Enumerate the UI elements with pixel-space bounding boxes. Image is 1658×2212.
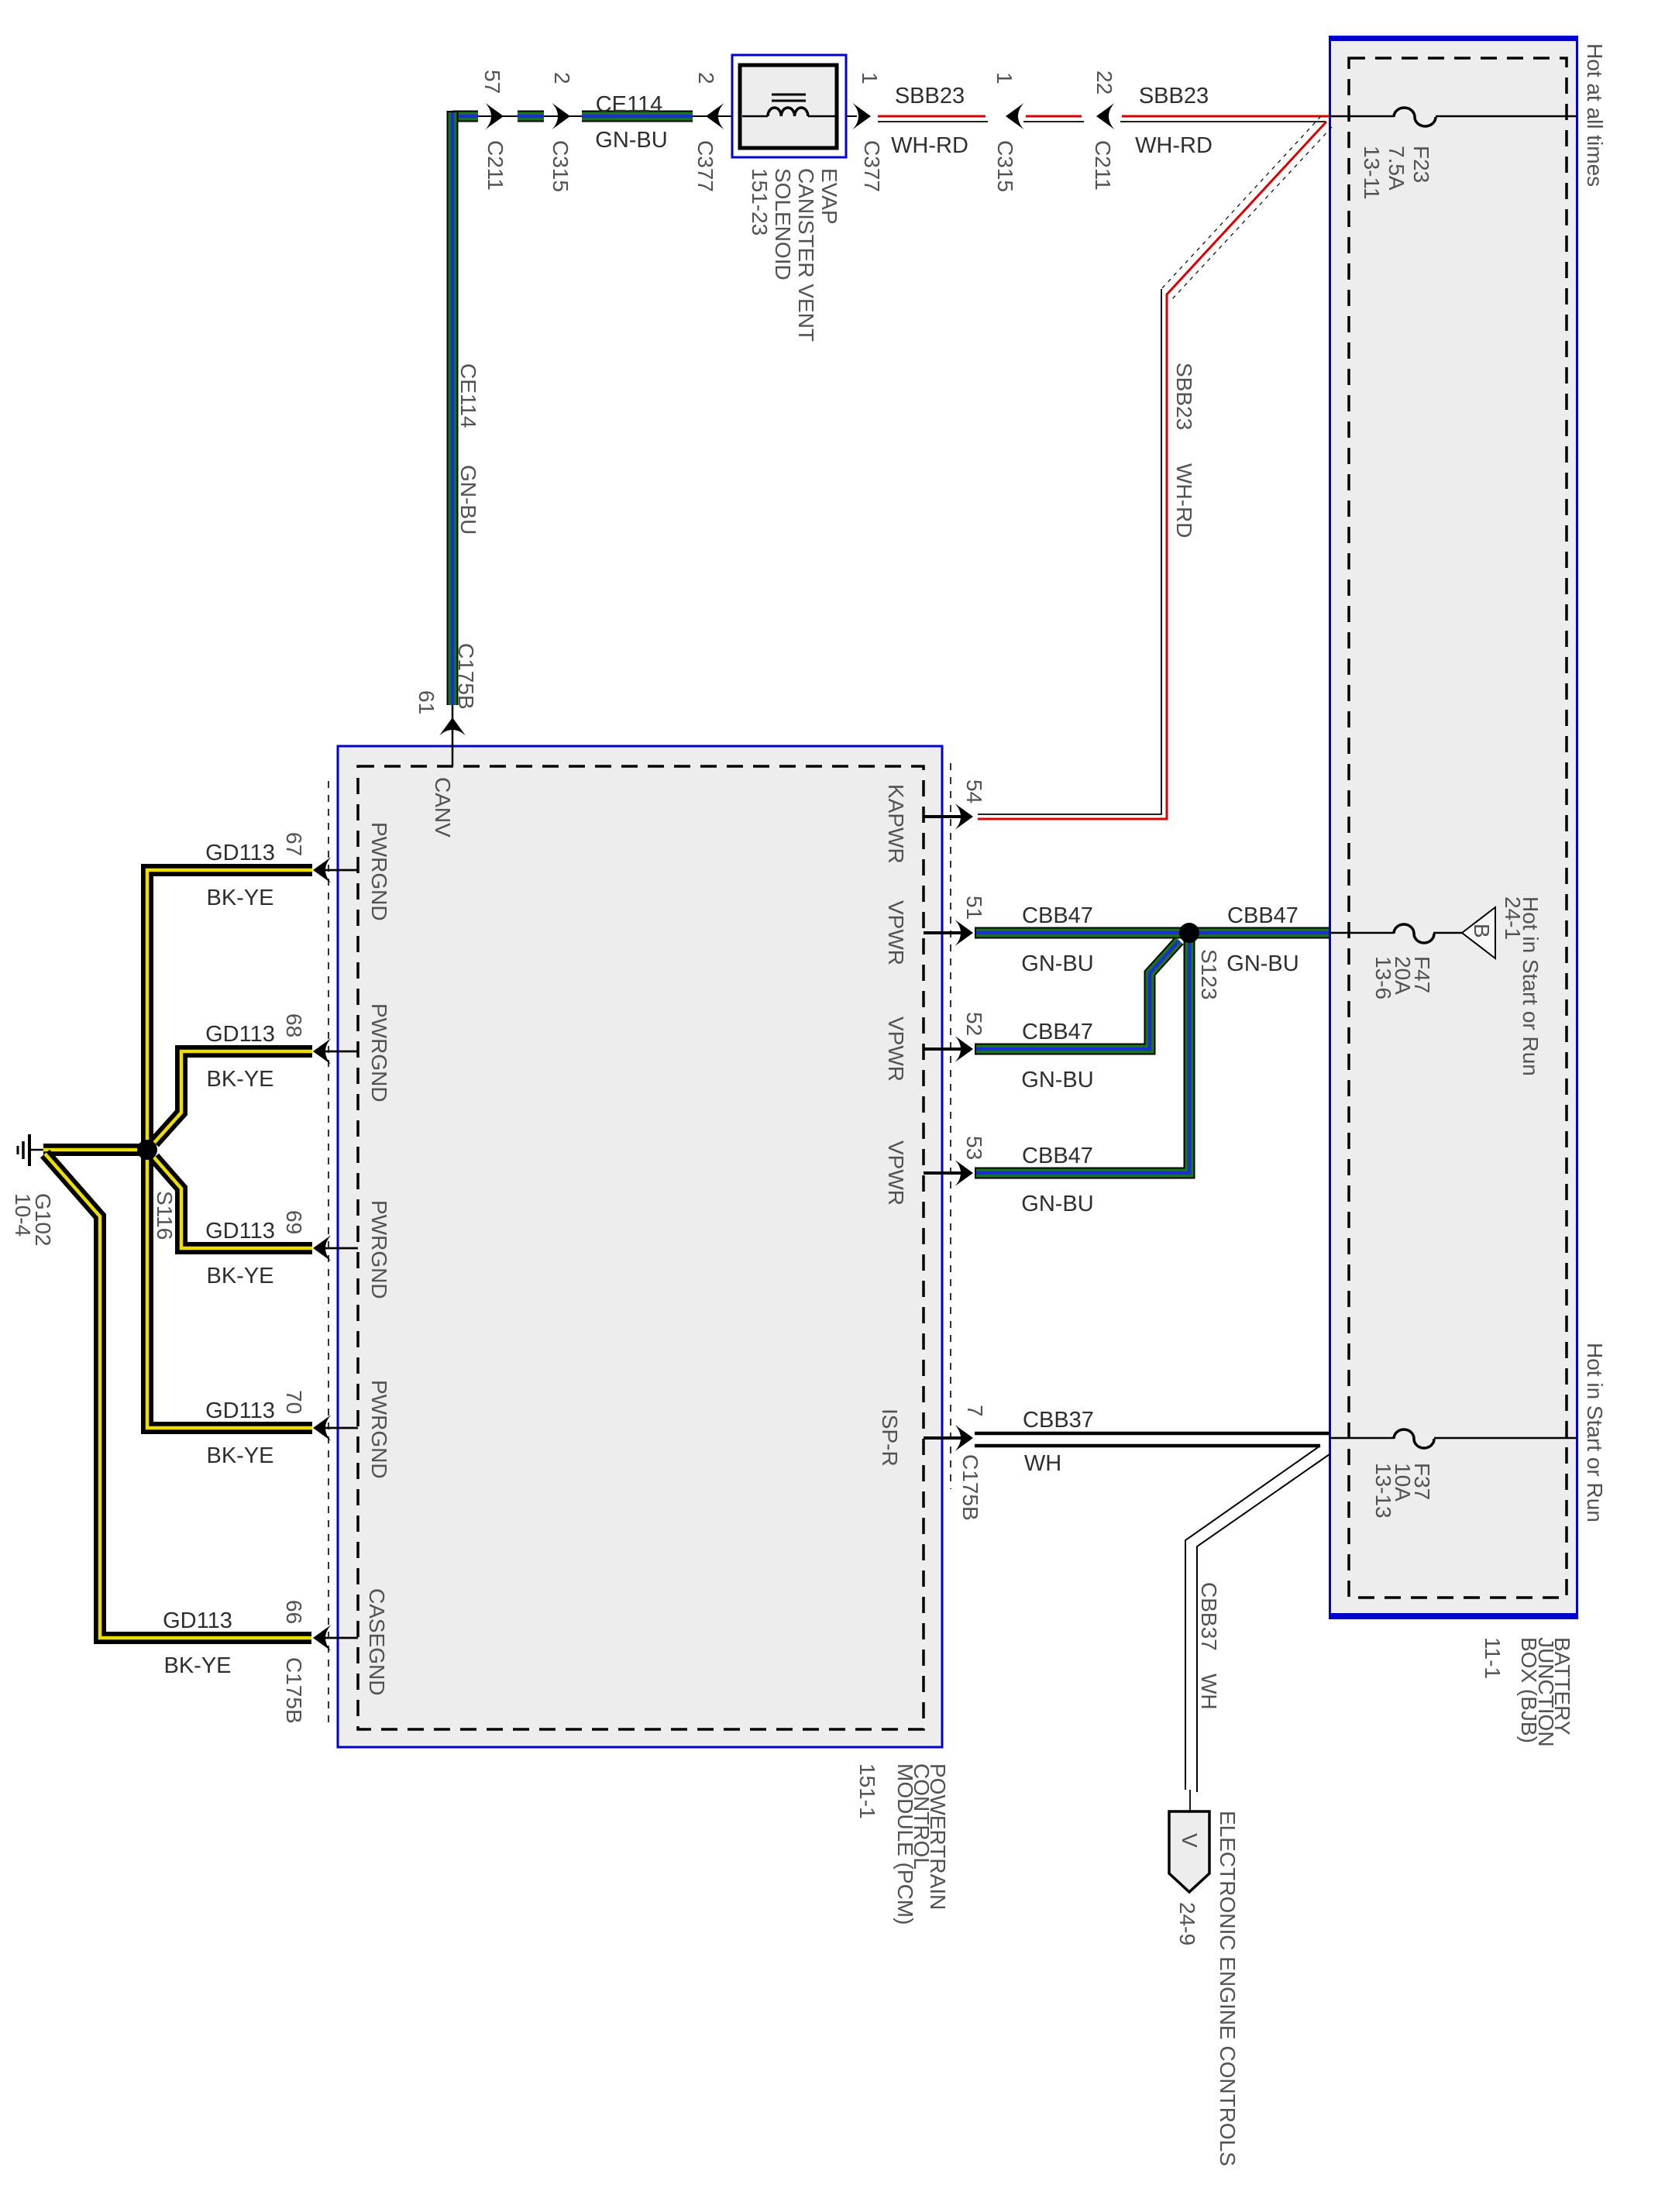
wire CBB37 WH branch diagonal upper: [1185, 1446, 1320, 1790]
label pin name KAPWR: [884, 784, 908, 864]
svg-text:PWRGND: PWRGND: [367, 822, 391, 921]
svg-text:GD113: GD113: [205, 1398, 275, 1423]
connector arrow PCM pin 53: [955, 1160, 974, 1186]
svg-text:CANV: CANV: [431, 777, 455, 838]
svg-text:22: 22: [1092, 71, 1116, 95]
svg-text:C315: C315: [993, 140, 1017, 192]
wire SBB23 WH-RD black line horizontal: [878, 121, 1326, 122]
svg-text:F23: F23: [1409, 146, 1433, 183]
wire CBB47 GN-BU pin 51 band: [975, 927, 1329, 939]
svg-text:KAPWR: KAPWR: [884, 784, 908, 864]
label pin 2 C377: [694, 72, 718, 84]
label pin 22 C211: [1092, 71, 1116, 95]
svg-text:53: 53: [962, 1136, 986, 1160]
label splice S116: [153, 1191, 177, 1240]
fuse F23 7.5A: [1394, 108, 1436, 126]
wire GD113 BK-YE ground leg: [43, 1144, 147, 1156]
svg-text:CE114: CE114: [596, 92, 663, 117]
svg-text:2: 2: [694, 72, 718, 84]
svg-text:CASEGND: CASEGND: [365, 1588, 389, 1695]
splice S116: [137, 1140, 157, 1160]
powertrain control module PCM outline: [338, 746, 942, 1747]
svg-text:69: 69: [282, 1210, 306, 1234]
label pin 53: [962, 1136, 986, 1160]
svg-text:C211: C211: [483, 140, 507, 191]
connector arrow C211 pin 57: [486, 103, 504, 129]
label pin 1 C315: [992, 72, 1016, 84]
label splice S123: [1197, 949, 1221, 999]
svg-text:GD113: GD113: [163, 1608, 232, 1633]
svg-text:51: 51: [962, 896, 986, 920]
label wire SBB23 vertical: [1172, 363, 1196, 430]
svg-text:B: B: [1470, 924, 1494, 938]
label connector C377 right: [860, 140, 884, 192]
connector arrow PCM pin 61: [439, 717, 466, 736]
svg-text:24-9: 24-9: [1175, 1902, 1199, 1945]
label connector C315 right: [993, 140, 1017, 192]
pin 70 stub: [325, 1427, 358, 1429]
wire GD113 BK-YE pin 67: [147, 870, 312, 1145]
svg-text:CBB47: CBB47: [1022, 1144, 1093, 1168]
wire CE114 GN-BU band between C211 and C315: [518, 111, 544, 122]
svg-text:1: 1: [858, 72, 882, 84]
svg-text:ISP-R: ISP-R: [878, 1409, 902, 1467]
connector C175B dashed line right of PCM: [950, 763, 951, 1489]
wire SBB23 WH-RD black companion vertical: [978, 289, 1161, 814]
svg-text:CANISTER VENT: CANISTER VENT: [794, 168, 818, 342]
solenoid coil symbol: [742, 95, 835, 116]
svg-text:CBB47: CBB47: [1022, 903, 1093, 928]
label connector V: [1178, 1833, 1202, 1848]
label triangle B: [1470, 924, 1494, 938]
svg-text:11-1: 11-1: [1481, 1637, 1505, 1679]
label pin name CASEGND: [365, 1588, 389, 1695]
svg-text:CE114: CE114: [456, 363, 480, 428]
svg-text:VPWR: VPWR: [884, 1017, 908, 1082]
fuse F37 10A: [1394, 1429, 1434, 1448]
wire GD113 BK-YE pin 66 CASEGND leg: [45, 1154, 311, 1638]
svg-text:WH-RD: WH-RD: [1172, 463, 1196, 538]
label pin name PWRGND 67: [367, 822, 391, 921]
connector arrow C211 pin 22: [1096, 103, 1115, 129]
connector C175B dashed line left of PCM: [328, 781, 329, 1724]
PCM inner dashed border: [358, 766, 924, 1729]
label pin name CANV: [431, 777, 455, 838]
label pin 51: [962, 896, 986, 920]
label pin name VPWR 51: [884, 900, 908, 965]
wire F37 feed inside BJB: [1329, 1437, 1577, 1440]
label connector C377: [693, 140, 717, 192]
wire SBB23 WH-RD solenoid stub: [846, 115, 857, 117]
svg-text:C211: C211: [1091, 140, 1115, 191]
svg-text:C377: C377: [693, 140, 717, 192]
svg-text:ELECTRONIC ENGINE CONTROLS: ELECTRONIC ENGINE CONTROLS: [1216, 1811, 1240, 2166]
connector arrow PCM pin 51: [955, 920, 974, 946]
svg-text:BK-YE: BK-YE: [163, 1653, 231, 1678]
svg-text:CBB47: CBB47: [1227, 903, 1299, 928]
svg-text:WH-RD: WH-RD: [1135, 133, 1213, 158]
svg-text:WH-RD: WH-RD: [891, 133, 968, 158]
svg-text:PWRGND: PWRGND: [367, 1003, 391, 1103]
pin 68 stub: [325, 1051, 358, 1053]
wire CBB37 WH pin 7 lower line: [975, 1444, 1320, 1448]
svg-text:SOLENOID: SOLENOID: [771, 168, 795, 280]
label connector C211 right: [1091, 140, 1115, 191]
svg-text:70: 70: [282, 1390, 306, 1414]
label pin 69: [282, 1210, 306, 1234]
svg-text:SBB23: SBB23: [895, 84, 965, 108]
svg-text:C377: C377: [860, 140, 884, 192]
label connector C175B pin 66: [282, 1657, 306, 1724]
connector arrow PCM pin 54: [955, 803, 974, 830]
svg-text:C175B: C175B: [958, 1454, 982, 1521]
svg-text:10-4: 10-4: [11, 1193, 35, 1237]
svg-text:PWRGND: PWRGND: [367, 1200, 391, 1299]
svg-text:C315: C315: [549, 140, 573, 192]
connector arrow PCM pin 67: [313, 857, 332, 883]
svg-text:13-6: 13-6: [1371, 956, 1395, 999]
svg-text:7: 7: [963, 1405, 987, 1417]
wire F47 feed inside BJB: [1329, 932, 1462, 934]
label pin 52: [962, 1012, 986, 1036]
label pin name PWRGND 68: [367, 1003, 391, 1103]
wire stub to connector V: [1189, 1790, 1191, 1813]
wire CE114 GN-BU band between C315 and C377: [582, 111, 693, 122]
svg-text:S116: S116: [153, 1191, 177, 1240]
wire GD113 BK-YE pin 70: [147, 1155, 312, 1428]
svg-text:7.5A: 7.5A: [1385, 146, 1409, 191]
label wire WH-RD vertical: [1172, 463, 1196, 538]
svg-text:GN-BU: GN-BU: [1021, 1068, 1093, 1092]
label solenoid EVAP CANISTER VENT SOLENOID 151-23: [748, 168, 841, 342]
svg-text:EVAP: EVAP: [817, 168, 841, 225]
label pin 7: [963, 1405, 987, 1417]
wire SBB23 diagonal dashed flank lower: [1172, 127, 1332, 299]
svg-text:MODULE (PCM): MODULE (PCM): [893, 1763, 917, 1925]
wire F23 feed inside BJB: [1329, 115, 1577, 118]
label connector C315: [549, 140, 573, 192]
svg-text:GN-BU: GN-BU: [1226, 951, 1299, 976]
label 24-9: [1175, 1902, 1199, 1945]
svg-text:BK-YE: BK-YE: [206, 886, 273, 910]
connector arrow PCM pin 69: [313, 1235, 332, 1261]
svg-text:CBB47: CBB47: [1022, 1020, 1093, 1044]
label connector C175B pin 61: [454, 643, 478, 710]
label pin name PWRGND 69: [367, 1200, 391, 1299]
svg-text:68: 68: [282, 1013, 306, 1037]
label Hot at all times: [1583, 43, 1607, 187]
pin 67 stub: [325, 869, 358, 872]
EVAP canister vent solenoid box: [732, 55, 846, 157]
label pin 66: [282, 1600, 306, 1624]
label pin 2 C315: [550, 72, 574, 84]
label pin name VPWR 52: [884, 1017, 908, 1082]
svg-text:Hot in Start or Run: Hot in Start or Run: [1583, 1343, 1607, 1522]
connector arrow C377 pin 1: [853, 103, 872, 129]
svg-text:GN-BU: GN-BU: [595, 128, 667, 153]
wire CBB37 WH pin 7 upper line: [975, 1432, 1329, 1436]
svg-text:C175B: C175B: [282, 1657, 306, 1724]
pin 66 stub: [325, 1637, 358, 1639]
svg-text:BK-YE: BK-YE: [206, 1443, 273, 1468]
label pin 70: [282, 1390, 306, 1414]
wire SBB23 WH-RD diagonal and vertical to PCM pin 54 red: [978, 122, 1326, 819]
label wire GN-BU vertical: [456, 465, 480, 535]
svg-text:66: 66: [282, 1600, 306, 1624]
wire CE114 GN-BU horizontal centerline: [452, 115, 732, 117]
svg-text:GD113: GD113: [205, 1219, 275, 1244]
svg-text:2: 2: [550, 72, 574, 84]
svg-text:151-1: 151-1: [855, 1763, 879, 1819]
pin 52 stub: [924, 1048, 965, 1051]
svg-text:CBB37: CBB37: [1023, 1408, 1094, 1433]
svg-text:1: 1: [992, 72, 1016, 84]
splice S123: [1179, 923, 1199, 943]
svg-text:GD113: GD113: [205, 1022, 275, 1047]
svg-text:V: V: [1178, 1833, 1202, 1848]
pin 7 stub: [924, 1436, 965, 1440]
svg-text:GN-BU: GN-BU: [456, 465, 480, 535]
svg-text:24-1: 24-1: [1501, 896, 1525, 940]
label pin name VPWR 53: [884, 1140, 908, 1206]
wire CBB37 WH branch diagonal lower: [1197, 1454, 1329, 1792]
svg-text:S123: S123: [1197, 949, 1221, 999]
label pin 68: [282, 1013, 306, 1037]
label wire CBB37 vertical: [1197, 1582, 1221, 1651]
label Hot in Start or Run lower: [1583, 1343, 1607, 1522]
svg-text:57: 57: [480, 70, 504, 94]
power source triangle B: [1462, 907, 1495, 958]
label connector C211: [483, 140, 507, 191]
pin 54 stub: [924, 815, 965, 818]
label pin name ISP-R: [878, 1409, 902, 1467]
connector arrow PCM pin 52: [955, 1036, 974, 1062]
ground G102 symbol: [18, 1134, 43, 1166]
svg-text:CBB37: CBB37: [1197, 1582, 1221, 1651]
svg-text:13-13: 13-13: [1371, 1463, 1395, 1519]
svg-text:PWRGND: PWRGND: [367, 1380, 391, 1479]
label wire WH vertical: [1197, 1674, 1221, 1710]
label pin 54: [962, 779, 986, 803]
pin 51 stub: [924, 931, 965, 934]
svg-text:C175B: C175B: [454, 643, 478, 710]
connector arrow C315 pin 1: [1006, 103, 1024, 129]
label pin name PWRGND 70: [367, 1380, 391, 1479]
battery junction box BJB outline: [1329, 36, 1578, 1619]
svg-text:WH: WH: [1197, 1674, 1221, 1710]
svg-text:BOX (BJB): BOX (BJB): [1517, 1637, 1541, 1743]
wire stub pin 61: [452, 705, 454, 766]
label pin 61: [414, 690, 439, 714]
svg-text:GN-BU: GN-BU: [1021, 1192, 1093, 1216]
pin 53 stub: [924, 1171, 965, 1175]
label fuse F23 7.5A 13-11: [1360, 146, 1433, 200]
svg-text:SBB23: SBB23: [1139, 84, 1209, 108]
svg-text:VPWR: VPWR: [884, 900, 908, 965]
connector arrow C377 pin 2: [706, 103, 724, 129]
svg-text:151-23: 151-23: [748, 168, 772, 236]
connector V to electronic engine controls: [1169, 1811, 1209, 1892]
label pin 1 C377: [858, 72, 882, 84]
svg-text:GN-BU: GN-BU: [1021, 951, 1093, 976]
svg-text:52: 52: [962, 1012, 986, 1036]
wire CE114 GN-BU band corner segment: [452, 111, 478, 122]
svg-text:13-11: 13-11: [1360, 146, 1384, 200]
svg-text:BK-YE: BK-YE: [206, 1067, 273, 1092]
label pin 57: [480, 70, 504, 94]
BJB inner dashed border: [1349, 58, 1567, 1598]
wire SBB23 WH-RD red line horizontal: [878, 115, 1329, 118]
label ground G102 10-4: [11, 1193, 55, 1247]
svg-text:VPWR: VPWR: [884, 1140, 908, 1206]
label ELECTRONIC ENGINE CONTROLS: [1216, 1811, 1240, 2166]
fuse F47 20A: [1394, 924, 1434, 943]
connector arrow PCM pin 66: [313, 1625, 332, 1651]
svg-text:GD113: GD113: [205, 841, 275, 865]
svg-text:WH: WH: [1024, 1451, 1061, 1476]
wire GD113 BK-YE pin 69: [154, 1158, 312, 1248]
label pin 67: [282, 832, 306, 856]
connector arrow PCM pin 70: [313, 1415, 332, 1441]
svg-text:SBB23: SBB23: [1172, 363, 1196, 430]
label POWERTRAIN CONTROL MODULE PCM 151-1: [855, 1763, 950, 1925]
wire SBB23 diagonal dashed flank upper: [1162, 116, 1321, 288]
connector arrow C315 pin 2: [552, 103, 571, 129]
svg-text:Hot at all times: Hot at all times: [1583, 43, 1607, 187]
label BATTERY JUNCTION BOX BJB 11-1: [1481, 1637, 1574, 1747]
label fuse F47 20A 13-6: [1371, 956, 1434, 999]
label fuse F37 10A 13-13: [1371, 1463, 1434, 1519]
connector arrow PCM pin 7: [955, 1425, 974, 1451]
connector arrow PCM pin 68: [313, 1038, 332, 1065]
svg-text:BK-YE: BK-YE: [206, 1264, 273, 1288]
label connector C175B pin 7: [958, 1454, 982, 1521]
label wire CE114 vertical: [456, 363, 480, 428]
label Hot in Start or Run 24-1: [1501, 896, 1543, 1076]
svg-text:67: 67: [282, 832, 306, 856]
svg-text:54: 54: [962, 779, 986, 803]
wire CE114 GN-BU vertical band to PCM pin 61: [447, 111, 459, 705]
wire GD113 BK-YE pin 68: [154, 1051, 312, 1143]
svg-text:61: 61: [414, 690, 439, 714]
pin 69 stub: [325, 1247, 358, 1250]
wire CBB47 GN-BU pin 52 band: [975, 941, 1179, 1049]
wire CBB47 GN-BU pin 53 band: [975, 937, 1189, 1173]
